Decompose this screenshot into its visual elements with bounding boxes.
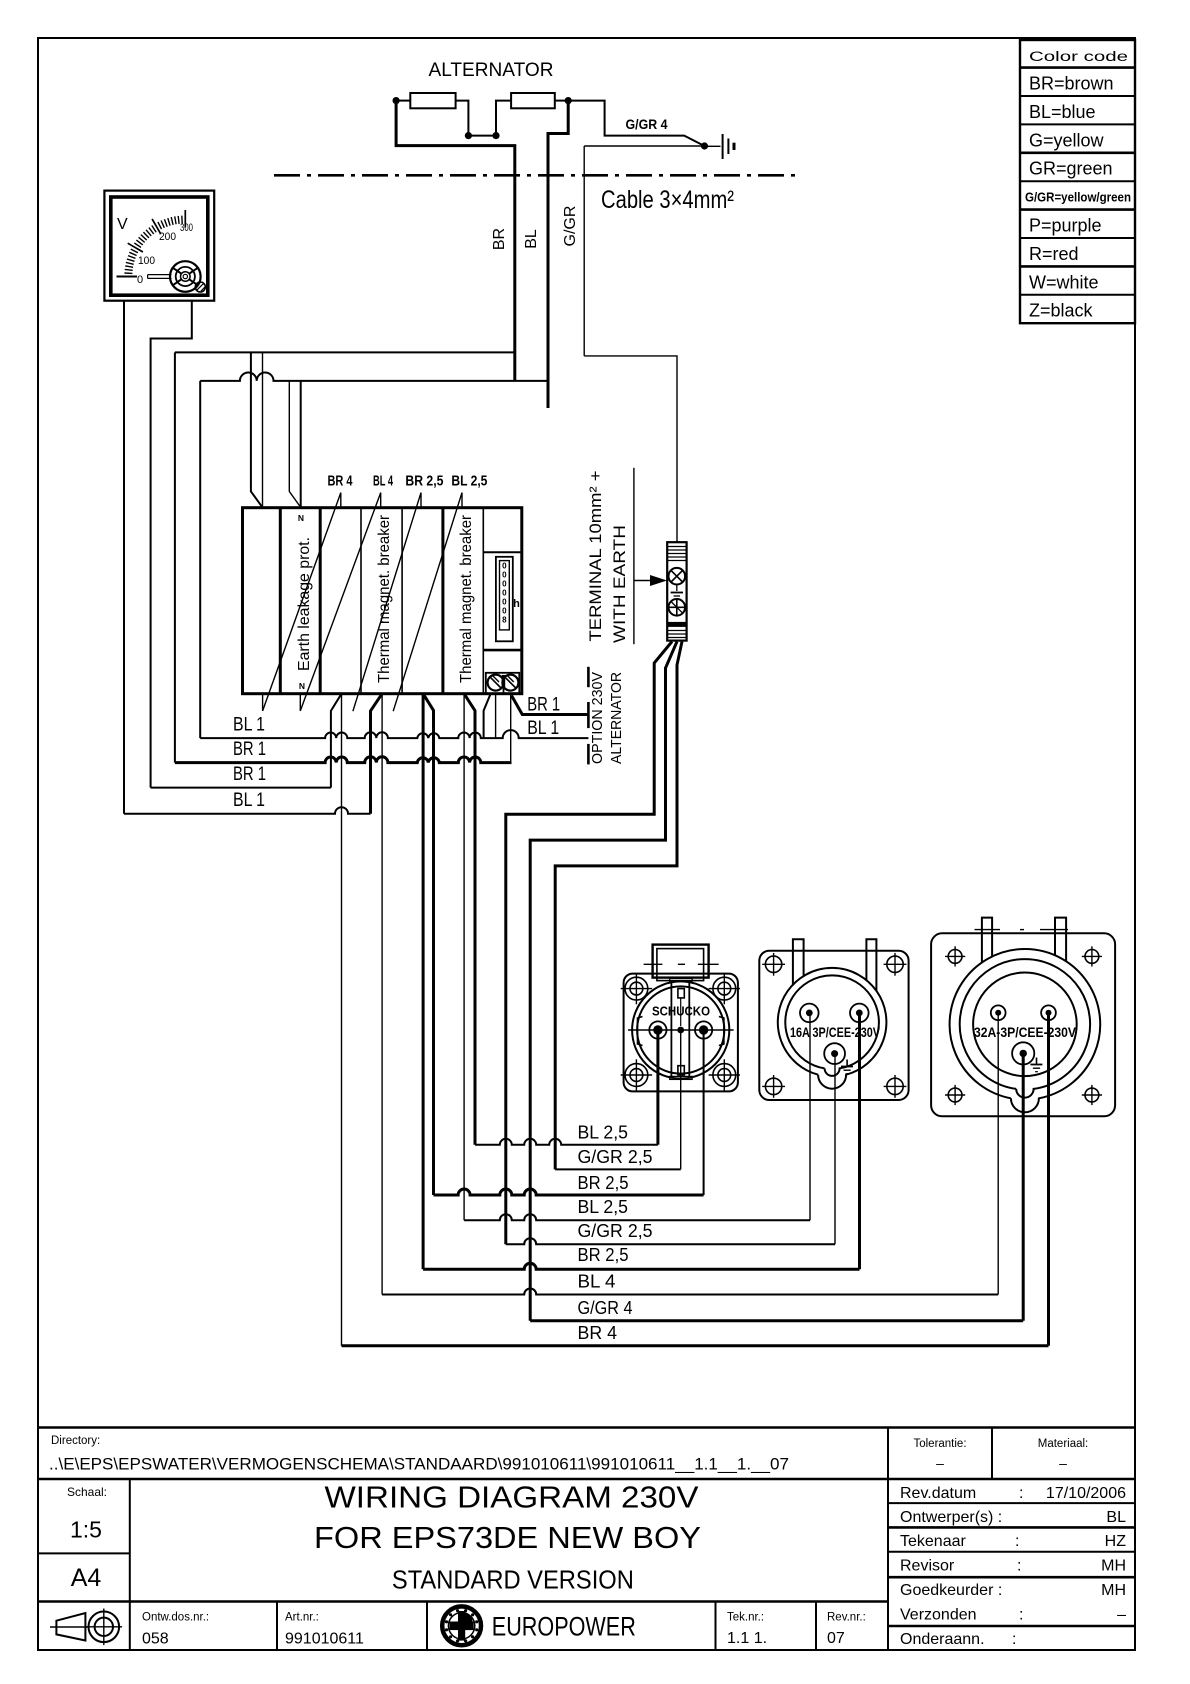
- 16A pin E: [824, 1043, 845, 1064]
- svg-text:BL: BL: [1106, 1509, 1126, 1526]
- 32A earth mark: [1030, 1058, 1042, 1072]
- svg-text:FOR EPS73DE NEW BOY: FOR EPS73DE NEW BOY: [314, 1520, 701, 1555]
- svg-text:G/GR 2,5: G/GR 2,5: [578, 1220, 653, 1241]
- 16A earth mark: [841, 1060, 853, 1074]
- wire: BL left drop: [199, 381, 201, 738]
- SCHUCKO pin L: [649, 1021, 666, 1038]
- svg-text:G/GR 2,5: G/GR 2,5: [578, 1146, 653, 1167]
- svg-text:BL 2,5: BL 2,5: [578, 1122, 629, 1143]
- wire: pole4 fan diagonal left: [371, 694, 383, 814]
- label BR 4 line9: [578, 1322, 618, 1343]
- svg-text:16A 3P/CEE-230V: 16A 3P/CEE-230V: [790, 1024, 881, 1040]
- materiaal cell: [1038, 1438, 1089, 1471]
- svg-text:BR 1: BR 1: [233, 764, 266, 785]
- svg-text:Rev.nr.:: Rev.nr.:: [827, 1611, 866, 1623]
- terminal leader line: [633, 468, 635, 645]
- A4 cell: [71, 1564, 102, 1592]
- rev table: [900, 1485, 1126, 1648]
- wire: BR 1 line L2: [175, 757, 512, 763]
- label G/GR 4: [626, 116, 668, 132]
- svg-text:0: 0: [502, 607, 507, 616]
- svg-text:G/GR 4: G/GR 4: [626, 116, 668, 132]
- svg-text:200: 200: [159, 231, 176, 243]
- svg-text::: :: [1015, 1533, 1019, 1550]
- svg-text:Earth leakage prot.: Earth leakage prot.: [296, 537, 313, 671]
- wire: G/GR across to terminal: [584, 356, 677, 542]
- wire: G/GR down from earth line: [583, 146, 585, 356]
- node: alternator right terminal: [565, 97, 572, 104]
- label N top: [298, 513, 304, 523]
- connector 32A plate: [931, 933, 1115, 1116]
- svg-text:P=purple: P=purple: [1029, 216, 1102, 236]
- svg-text:Ontwerper(s) :: Ontwerper(s) :: [900, 1509, 1002, 1526]
- label BR 1 right: [527, 695, 560, 716]
- earth (frame ground) symbol: [705, 134, 735, 159]
- svg-text:W=white: W=white: [1029, 272, 1099, 292]
- svg-text:V: V: [117, 216, 128, 233]
- 32A corner screw TR: [1082, 946, 1102, 966]
- wire: 32A pin R riser: [1047, 1013, 1050, 1346]
- wire: G/GR 4 from right terminal to earth node: [568, 101, 704, 146]
- dash-dot boundary line: [274, 174, 799, 177]
- breaker block outline: [243, 508, 522, 694]
- label BR 4: [328, 473, 353, 490]
- breaker block partition 2: [319, 508, 322, 694]
- svg-text::: :: [1012, 1631, 1016, 1648]
- wire: junction link: [468, 135, 496, 137]
- connector SCHUCKO plate: [624, 974, 738, 1092]
- svg-text:..\E\EPS\EPSWATER\VERMOGENSCHE: ..\E\EPS\EPSWATER\VERMOGENSCHEMA\STANDAA…: [49, 1455, 789, 1474]
- 16A mounting prong R: [866, 939, 876, 991]
- svg-text::: :: [1019, 1485, 1023, 1502]
- breaker block partition 3: [360, 508, 362, 694]
- svg-text:BL 2,5: BL 2,5: [451, 473, 487, 490]
- svg-text:Thermal magnet. breaker: Thermal magnet. breaker: [376, 514, 393, 683]
- alternator winding W2: [511, 93, 555, 108]
- schaal cell: [67, 1485, 107, 1542]
- label TERMINAL 10mm2 + (rotated): [586, 470, 605, 641]
- wire: 32A pin L riser: [997, 1013, 999, 1295]
- breaker block partition 5: [441, 508, 444, 694]
- label BL 1 right: [527, 718, 559, 739]
- svg-text:Ontw.dos.nr.:: Ontw.dos.nr.:: [142, 1612, 209, 1624]
- wire: BR from left terminal down and right: [396, 99, 515, 380]
- svg-text:STANDARD VERSION: STANDARD VERSION: [392, 1564, 634, 1594]
- tek.nr cell: [727, 1611, 767, 1647]
- 32A mounting prong L: [982, 918, 992, 963]
- SCHUCKO pin R: [695, 1021, 712, 1038]
- label BR 2,5 line3: [578, 1172, 629, 1193]
- wire: junction up to W2 left lead: [496, 101, 511, 136]
- 32A pin L: [991, 1005, 1006, 1020]
- svg-text:1.1 1.: 1.1 1.: [727, 1630, 767, 1647]
- svg-text:32A-3P/CEE-230V: 32A-3P/CEE-230V: [974, 1024, 1077, 1040]
- label BL 2,5 line4: [578, 1196, 629, 1217]
- wire: pole6 drop to BL 2,5 mid: [463, 694, 465, 1220]
- svg-text:BR 1: BR 1: [233, 739, 266, 760]
- wire: BL 1 line L4: [124, 807, 371, 813]
- svg-text:–: –: [1059, 1455, 1067, 1471]
- 32A pin R: [1041, 1005, 1056, 1020]
- 32A face circles with keyway: [950, 949, 1101, 1112]
- label BL 1 left: [233, 714, 265, 735]
- wire: pole3 drop to BR 4: [341, 694, 343, 1346]
- svg-text:BL 1: BL 1: [233, 714, 265, 735]
- wire: line7 BL 4 to 32A pin L: [382, 1289, 998, 1295]
- wire: schucko pin E riser: [680, 1030, 682, 1169]
- svg-text:0: 0: [137, 274, 143, 286]
- 32A mounting prong R: [1055, 918, 1066, 962]
- svg-text:N: N: [299, 681, 305, 691]
- svg-text:BR 2,5: BR 2,5: [578, 1244, 629, 1265]
- wire: pole3 fan diagonal left: [331, 694, 342, 788]
- breaker switch stroke 3: [353, 493, 421, 712]
- label ALTERNATOR option (rotated): [608, 672, 625, 764]
- svg-text:BL=blue: BL=blue: [1029, 102, 1096, 122]
- svg-text:EUROPOWER: EUROPOWER: [492, 1611, 636, 1641]
- svg-text:Cable 3×4mm²: Cable 3×4mm²: [601, 186, 734, 214]
- svg-text:07: 07: [827, 1630, 845, 1647]
- wire: W1 left lead: [396, 100, 410, 102]
- voltmeter V1: [104, 191, 214, 301]
- breaker block partition 4: [401, 508, 403, 694]
- label BL 2,5: [451, 473, 487, 490]
- option boundary dashed line: [587, 667, 590, 765]
- wire: 16A pin R riser: [858, 1013, 861, 1269]
- label BL (vertical): [523, 229, 540, 249]
- 16A corner screw BL: [762, 1075, 785, 1098]
- wire: BR 1 line L3: [151, 787, 331, 789]
- connector 16A plate: [759, 951, 908, 1100]
- rev.nr cell: [827, 1611, 866, 1647]
- wire: W1 right lead down to junction: [456, 101, 469, 136]
- svg-text:Directory:: Directory:: [51, 1435, 100, 1447]
- wire: pole4 drop to BL 4: [381, 694, 383, 1295]
- title block frame lines: [38, 1428, 1135, 1651]
- svg-text:8: 8: [502, 616, 507, 625]
- SCHUCKO label: [652, 1004, 710, 1018]
- SCHUCKO earth side contacts: [638, 1017, 724, 1046]
- SCHUCKO slot rails: [670, 978, 692, 1079]
- node: alternator left terminal: [393, 97, 400, 104]
- svg-text:Goedkeurder :: Goedkeurder :: [900, 1582, 1002, 1599]
- wire: 16A pin E riser: [834, 1054, 836, 1245]
- svg-text:BL: BL: [523, 229, 540, 249]
- svg-text:BR 2,5: BR 2,5: [405, 473, 443, 490]
- svg-text:G/GR 4: G/GR 4: [578, 1297, 633, 1318]
- SCHUCKO corner screw BR: [709, 1059, 740, 1090]
- svg-text:991010611: 991010611: [285, 1631, 364, 1648]
- label BR 1 left3: [233, 764, 266, 785]
- 32A corner screw BR: [1082, 1085, 1102, 1105]
- 32A corner screw TL: [945, 946, 965, 966]
- wire: terminal earth A down: [506, 642, 672, 1245]
- art.nr cell: [285, 1612, 364, 1648]
- label BL 2,5 line1: [578, 1122, 629, 1143]
- svg-text:–: –: [1117, 1606, 1126, 1623]
- label Earth leakage prot. (rotated): [296, 537, 313, 671]
- svg-text:SCHUCKO: SCHUCKO: [652, 1004, 710, 1018]
- hour counter divider top: [483, 551, 522, 553]
- node: earth junction: [701, 142, 708, 149]
- terminal block X1: [667, 542, 686, 640]
- ontw.dos.nr cell: [142, 1612, 209, 1648]
- hour counter H1: [496, 557, 520, 642]
- svg-text:N: N: [298, 513, 304, 523]
- tolerantie cell: [913, 1438, 966, 1471]
- svg-text:Art.nr.:: Art.nr.:: [285, 1612, 319, 1624]
- breaker switch stroke 2: [300, 493, 380, 711]
- label BR 1 left2: [233, 739, 266, 760]
- wire: BR 1 option link: [512, 696, 589, 715]
- label G/GR 4 line8: [578, 1297, 633, 1318]
- node: winding junction right: [492, 132, 499, 139]
- label BL 4: [373, 473, 393, 490]
- svg-text:300: 300: [180, 222, 193, 234]
- svg-text:G/GR: G/GR: [562, 206, 579, 247]
- wire: BL from right terminal step down: [548, 99, 568, 408]
- 16A corner screw TL: [762, 953, 785, 976]
- svg-text:0: 0: [502, 571, 507, 580]
- svg-text:MH: MH: [1101, 1558, 1126, 1575]
- 16A face circles with keyway: [778, 968, 887, 1089]
- svg-text:Tek.nr.:: Tek.nr.:: [727, 1611, 764, 1623]
- svg-text:Tekenaar: Tekenaar: [900, 1533, 966, 1550]
- svg-text:BL 1: BL 1: [233, 790, 265, 811]
- wire: terminal earth C down: [555, 642, 682, 1170]
- wire: BL 1 line L1: [200, 730, 588, 738]
- svg-text:058: 058: [142, 1631, 169, 1648]
- wire: voltmeter left lead down: [123, 301, 125, 814]
- svg-text:BL 1: BL 1: [527, 718, 559, 739]
- wire: line8 G/GR 4 to 32A pin E: [530, 1319, 1023, 1322]
- wire: schucko pin L riser: [656, 1030, 659, 1145]
- svg-text:G=yellow: G=yellow: [1029, 130, 1105, 150]
- label N bottom: [299, 681, 305, 691]
- svg-text:Materiaal:: Materiaal:: [1038, 1438, 1089, 1450]
- label BR 2,5: [405, 473, 443, 490]
- svg-text:R=red: R=red: [1029, 244, 1079, 264]
- 16A mounting prong L: [793, 939, 804, 984]
- svg-text:Onderaann.: Onderaann.: [900, 1631, 985, 1648]
- wire: line4 BL 2,5 to 16A pin L: [464, 1214, 810, 1220]
- svg-text:Revisor: Revisor: [900, 1558, 955, 1575]
- wire: BR horizontal feed to block: [175, 351, 515, 353]
- label Thermal magnet. breaker 2 (rotated): [458, 514, 475, 683]
- 32A pin E: [1012, 1042, 1034, 1064]
- svg-text:Thermal magnet. breaker: Thermal magnet. breaker: [458, 514, 475, 683]
- svg-text:BR 4: BR 4: [328, 473, 353, 490]
- svg-text:0: 0: [502, 589, 507, 598]
- first angle projection symbol: [50, 1609, 122, 1646]
- wire: line2 G/GR 2,5 to schucko pin E: [555, 1168, 681, 1170]
- svg-text:BL 2,5: BL 2,5: [578, 1196, 629, 1217]
- svg-text:GR=green: GR=green: [1029, 159, 1113, 179]
- svg-text:WITH EARTH: WITH EARTH: [610, 525, 629, 643]
- 32A corner screw BL: [945, 1085, 965, 1105]
- breaker switch stroke 1: [263, 493, 341, 711]
- label G/GR 2,5 line5: [578, 1220, 653, 1241]
- label OPTION 230V (rotated): [589, 672, 606, 764]
- svg-text::: :: [1019, 1606, 1023, 1623]
- svg-text:0: 0: [502, 580, 507, 589]
- svg-text:TERMINAL 10mm² +: TERMINAL 10mm² +: [586, 470, 605, 641]
- svg-text:Color code: Color code: [1029, 49, 1128, 64]
- label G/GR 2,5 line2: [578, 1146, 653, 1167]
- svg-text:17/10/2006: 17/10/2006: [1046, 1485, 1126, 1502]
- SCHUCKO cable gland: [644, 945, 719, 981]
- wire: pole6 fan diagonal right: [464, 694, 475, 1145]
- SCHUCKO pin E center: [677, 1027, 684, 1034]
- svg-text:BR: BR: [491, 228, 508, 250]
- SCHUCKO corner screw BL: [621, 1059, 652, 1090]
- EUROPOWER logo: [442, 1606, 636, 1645]
- wire: line6 BR 2,5 to 16A pin R: [423, 1263, 859, 1269]
- node: winding junction left: [465, 132, 472, 139]
- wire: pole5 fan diagonal right: [423, 694, 433, 1195]
- wire: pole5 drop to BR 2,5 lower: [422, 694, 425, 1270]
- svg-text:Verzonden: Verzonden: [900, 1606, 977, 1623]
- option socket outlet in block: [486, 673, 520, 694]
- svg-text:100: 100: [138, 255, 155, 267]
- wire: line9 BR 4 to 32A pin R: [342, 1344, 1049, 1347]
- wire: line5 G/GR 2,5 to 16A pin E: [506, 1238, 835, 1244]
- label BR 2,5 line6: [578, 1244, 629, 1265]
- svg-text:1:5: 1:5: [70, 1516, 102, 1542]
- 16A pin R: [850, 1004, 869, 1023]
- ALTERNATOR label: [429, 59, 554, 81]
- breaker switch stroke 4: [393, 493, 462, 712]
- svg-text:0: 0: [502, 598, 507, 607]
- 16A pin L: [800, 1004, 819, 1023]
- 16A corner screw TR: [884, 953, 907, 976]
- wire: BL horizontal feed with hop over BR pair: [200, 372, 548, 380]
- SCHUCKO center crosshair: [628, 1029, 734, 1031]
- wire: socket screw1 diagonal drop: [484, 694, 491, 738]
- label BR (vertical): [491, 228, 508, 250]
- svg-text:h: h: [513, 598, 520, 610]
- svg-text:BR 1: BR 1: [527, 695, 560, 716]
- 32A gland centerline: [975, 929, 1069, 931]
- 16A label: [790, 1024, 881, 1040]
- wire: socket screw1 straight drop: [495, 694, 497, 738]
- svg-text:BR 2,5: BR 2,5: [578, 1172, 629, 1193]
- label BL 1 left4: [233, 790, 265, 811]
- main title: [314, 1480, 701, 1595]
- label BL 4 line7: [578, 1271, 616, 1292]
- svg-text:BR 4: BR 4: [578, 1322, 618, 1343]
- svg-text:Rev.datum: Rev.datum: [900, 1485, 976, 1502]
- 32A label: [974, 1024, 1077, 1040]
- svg-text:BL 4: BL 4: [578, 1271, 616, 1292]
- svg-text:–: –: [936, 1455, 944, 1471]
- wire: BR left drop: [174, 352, 176, 762]
- SCHUCKO corner screw TR: [709, 973, 740, 1004]
- svg-text:ALTERNATOR: ALTERNATOR: [608, 672, 625, 764]
- svg-text:A4: A4: [71, 1564, 102, 1592]
- alternator winding W1: [410, 93, 455, 108]
- 16A corner screw BR: [884, 1075, 907, 1098]
- wire: W2 right lead: [555, 100, 568, 102]
- svg-text:G/GR=yellow/green: G/GR=yellow/green: [1025, 190, 1131, 205]
- wire: G/GR branch to earth node: [584, 145, 704, 147]
- label Thermal magnet. breaker 1 (rotated): [376, 514, 393, 683]
- wire: BL block entry pair to N: [289, 381, 300, 508]
- svg-text:Tolerantie:: Tolerantie:: [913, 1438, 966, 1450]
- svg-text:ALTERNATOR: ALTERNATOR: [429, 59, 554, 81]
- svg-text:MH: MH: [1101, 1582, 1126, 1599]
- wire: socket screw2 straight drop: [510, 694, 512, 763]
- svg-text:BL 4: BL 4: [373, 473, 393, 490]
- color code table: [1020, 40, 1135, 323]
- svg-text:BR=brown: BR=brown: [1029, 74, 1114, 94]
- wire: line3 BR 2,5 to schucko pin R: [434, 1189, 704, 1195]
- svg-text:OPTION 230V: OPTION 230V: [589, 672, 606, 764]
- hour counter divider bottom: [483, 649, 522, 652]
- svg-text:0: 0: [502, 562, 507, 571]
- terminal arrow: [634, 575, 667, 586]
- SCHUCKO socket face circles: [632, 981, 729, 1078]
- svg-text:WIRING DIAGRAM 230V: WIRING DIAGRAM 230V: [325, 1480, 699, 1515]
- directory row: [49, 1435, 789, 1474]
- label Cable 3x4mm2: [601, 186, 734, 214]
- wire: line1 BL 2,5 to schucko pin L: [475, 1139, 658, 1145]
- wire: 16A pin L riser: [809, 1013, 811, 1220]
- wire: schucko pin R riser: [703, 1030, 705, 1195]
- wire: BR block entry pair: [251, 352, 263, 507]
- label WITH EARTH (rotated): [610, 525, 629, 643]
- breaker block partition 1: [279, 508, 282, 694]
- wire: terminal earth B down: [530, 642, 677, 1321]
- svg-text:Z=black: Z=black: [1029, 301, 1094, 321]
- label G/GR (vertical): [562, 206, 579, 247]
- breaker block partition 6: [482, 508, 484, 694]
- wire: voltmeter right lead jog down: [151, 301, 192, 788]
- svg-text::: :: [1017, 1558, 1021, 1575]
- SCHUCKO corner screw TL: [621, 973, 652, 1004]
- svg-text:HZ: HZ: [1105, 1533, 1127, 1550]
- wire: 32A pin E riser: [1022, 1053, 1025, 1320]
- svg-text:Schaal:: Schaal:: [67, 1485, 107, 1499]
